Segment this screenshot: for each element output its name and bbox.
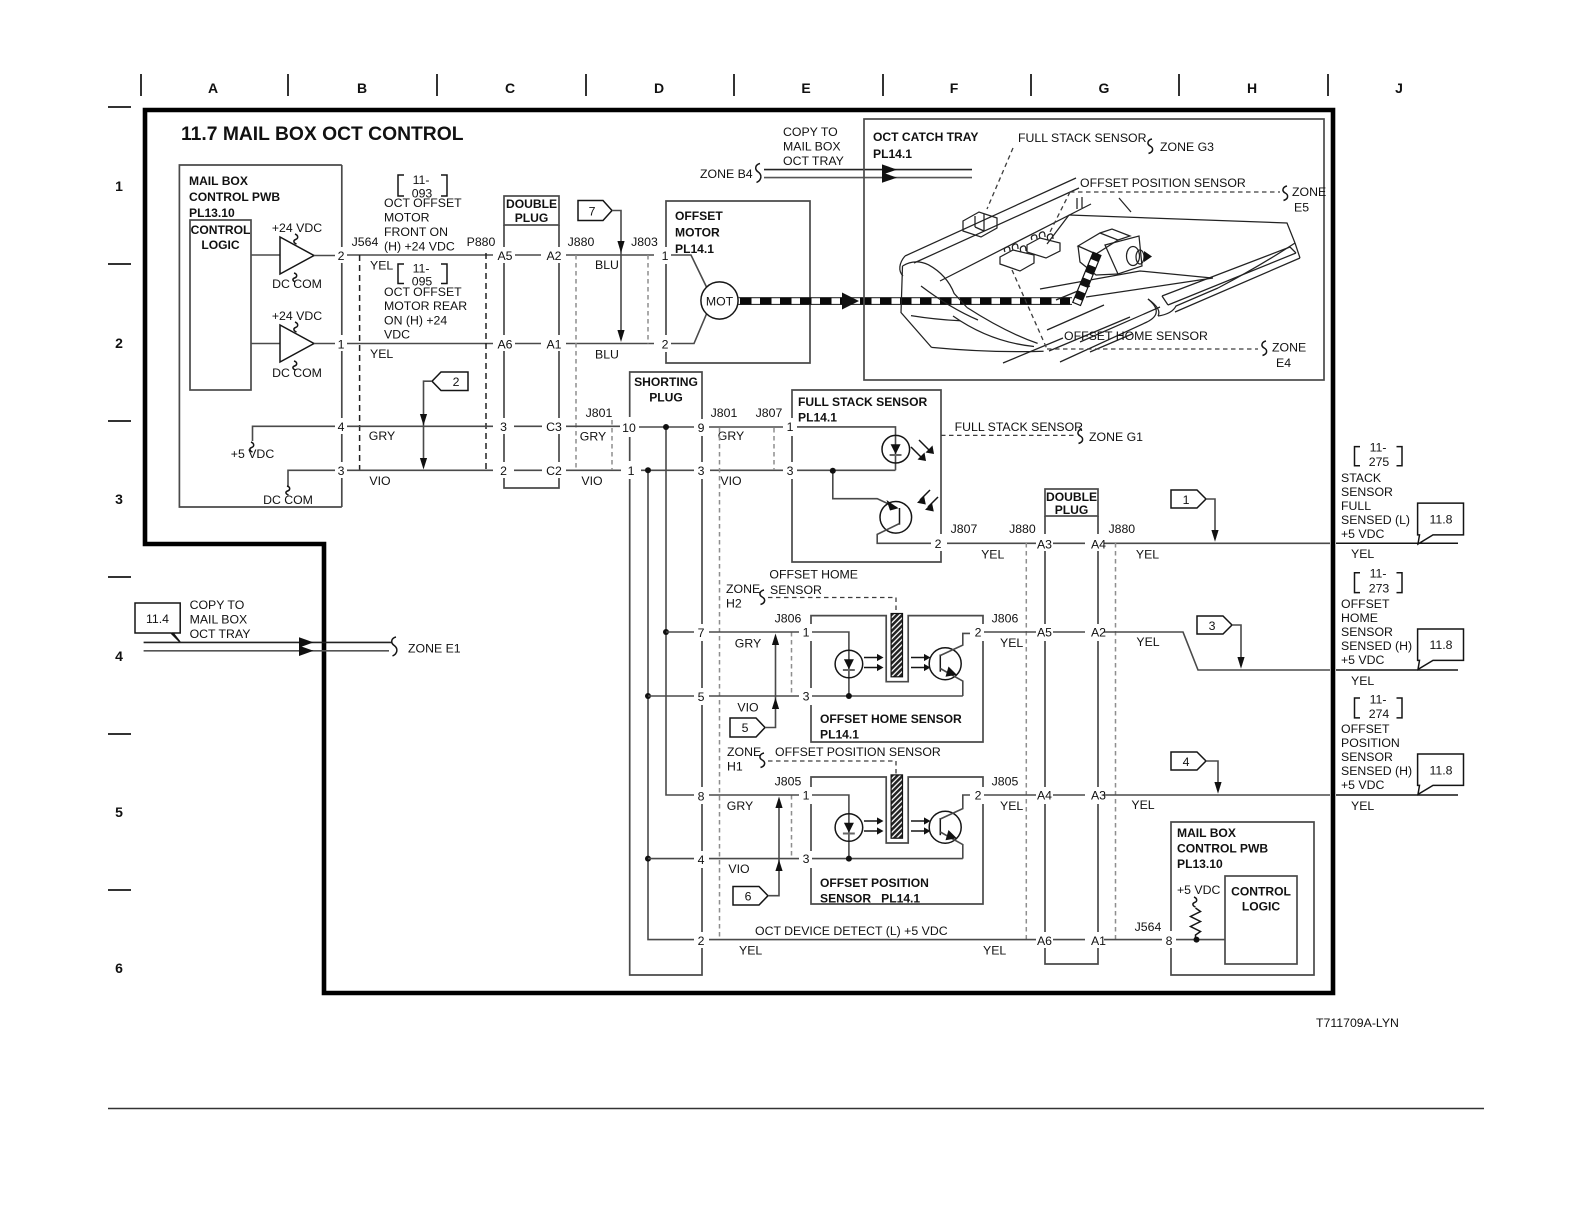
svg-text:J564: J564	[352, 235, 379, 249]
svg-text:1: 1	[787, 420, 794, 434]
svg-text:SENSOR: SENSOR	[770, 583, 822, 597]
svg-text:C: C	[505, 80, 515, 96]
svg-text:PLUG: PLUG	[515, 211, 549, 225]
svg-text:7: 7	[698, 626, 705, 640]
svg-text:8: 8	[698, 790, 705, 804]
+5 VDC pull-up resistor R1	[1177, 883, 1221, 938]
svg-text:MOT: MOT	[706, 295, 734, 309]
svg-text:3: 3	[115, 491, 123, 507]
junction dot J564-8 node	[1194, 937, 1200, 943]
svg-text:4: 4	[698, 853, 705, 867]
full stack sensor box PL14.1	[787, 390, 942, 562]
svg-text:A2: A2	[546, 249, 561, 263]
svg-text:COPY TO: COPY TO	[783, 125, 838, 139]
svg-text:YEL: YEL	[1351, 799, 1374, 813]
svg-text:SENSOR: SENSOR	[1341, 625, 1393, 639]
callout: OFFSET HOME SENSOR / zone E4	[1012, 270, 1306, 370]
svg-text:VIO: VIO	[720, 474, 741, 488]
svg-text:VDC: VDC	[384, 327, 410, 341]
svg-text:PL14.1: PL14.1	[675, 242, 714, 256]
svg-text:3: 3	[803, 690, 810, 704]
svg-text:PL14.1: PL14.1	[873, 147, 912, 161]
svg-text:+24 VDC: +24 VDC	[272, 309, 322, 323]
double plug (left) column	[504, 196, 559, 488]
svg-text:6: 6	[745, 890, 752, 904]
svg-text:BLU: BLU	[595, 348, 619, 362]
home sensor light arrows	[864, 654, 931, 671]
svg-text:OFFSET HOME: OFFSET HOME	[769, 567, 858, 581]
control logic block (left pwb)	[190, 220, 251, 390]
svg-text:DOUBLE: DOUBLE	[506, 197, 557, 211]
svg-text:YEL: YEL	[1136, 548, 1159, 562]
tray pictorial: striped actuator rod	[1073, 252, 1101, 305]
svg-text:J801: J801	[711, 406, 738, 420]
tray pictorial: full stack sensor part	[963, 212, 997, 237]
svg-text:ZONE G3: ZONE G3	[1160, 140, 1214, 154]
svg-text:DOUBLE: DOUBLE	[1046, 490, 1097, 504]
svg-text:J803: J803	[631, 235, 658, 249]
wire J564-2 to J803-1 (front motor, YEL/BLU)	[347, 255, 707, 287]
wire VIO row 4 to J805-3	[648, 859, 799, 876]
svg-text:YEL: YEL	[1351, 547, 1374, 561]
offset position sensor box PL14.1	[803, 777, 983, 906]
svg-text:ZONE E1: ZONE E1	[408, 642, 461, 656]
svg-text:VIO: VIO	[737, 701, 758, 715]
mechanical drive dashed link to tray	[738, 293, 1072, 310]
svg-text:2: 2	[975, 626, 982, 640]
position sensor phototransistor Q3	[929, 795, 970, 859]
svg-text:OCT OFFSET: OCT OFFSET	[384, 196, 462, 210]
svg-text:J: J	[1395, 80, 1403, 96]
svg-text:ZONE: ZONE	[727, 745, 761, 759]
svg-text:E4: E4	[1276, 356, 1291, 370]
svg-text:1: 1	[803, 626, 810, 640]
svg-text:MAIL BOX: MAIL BOX	[783, 140, 841, 154]
callout: FULL STACK SENSOR zone G1	[941, 420, 1143, 444]
svg-text:2: 2	[698, 934, 705, 948]
driver U2 +24VDC buffer (rear motor)	[251, 309, 335, 380]
position sensor interrupter flag	[891, 775, 902, 838]
connector labels J564 P880 J880 J803	[352, 235, 658, 249]
svg-text:CONTROL: CONTROL	[191, 223, 251, 237]
svg-text:OCT CATCH TRAY: OCT CATCH TRAY	[873, 130, 978, 144]
copy-to-mailbox paper path from zone B4	[700, 125, 972, 183]
mail box control pwb (right) box PL13.10	[1171, 822, 1314, 975]
svg-text:A: A	[208, 80, 218, 96]
svg-text:OFFSET POSITION: OFFSET POSITION	[820, 876, 929, 890]
svg-text:YEL: YEL	[1351, 674, 1374, 688]
svg-text:11-: 11-	[1370, 441, 1387, 455]
driver U1 +24VDC buffer (front motor)	[251, 221, 335, 291]
column header ticks	[141, 74, 1328, 96]
wire row J806-2 to A5/A2 (offset home sensed)	[984, 612, 1458, 689]
offset motor box PL14.1	[662, 201, 810, 363]
wire VIO row (pwb pin3 to J801-1)	[347, 470, 783, 488]
motor MOT symbol	[701, 282, 738, 319]
svg-text:GRY: GRY	[718, 429, 744, 443]
svg-text:2: 2	[500, 464, 507, 478]
svg-text:GRY: GRY	[727, 799, 753, 813]
svg-text:T711709A-LYN: T711709A-LYN	[1316, 1016, 1399, 1030]
svg-text:SENSED (H): SENSED (H)	[1341, 764, 1412, 778]
svg-text:FULL STACK SENSOR: FULL STACK SENSOR	[955, 420, 1084, 434]
svg-text:YEL: YEL	[370, 347, 393, 361]
tag 1 pointer (full stack row)	[1171, 490, 1219, 542]
tag 7 pointer to motor wires	[578, 201, 625, 343]
svg-text:PL13.10: PL13.10	[189, 206, 235, 220]
svg-text:GRY: GRY	[580, 430, 606, 444]
svg-text:J880: J880	[1108, 522, 1135, 536]
shorting plug internal jumper B (3-5-4-2)	[648, 470, 694, 939]
svg-text:1: 1	[1183, 493, 1190, 507]
svg-text:7: 7	[589, 205, 596, 219]
svg-text:4: 4	[338, 420, 345, 434]
svg-text:OFFSET: OFFSET	[1341, 722, 1390, 736]
tag 5 pointer (home sensor wires)	[730, 634, 779, 738]
svg-text:SENSED (H): SENSED (H)	[1341, 639, 1412, 653]
note 11-093 OCT OFFSET MOTOR FRONT ON	[384, 173, 462, 254]
svg-text:MOTOR: MOTOR	[675, 226, 720, 240]
svg-text:GRY: GRY	[369, 429, 395, 443]
svg-text:C3: C3	[546, 420, 562, 434]
svg-text:5: 5	[115, 804, 123, 820]
svg-text:+5 VDC: +5 VDC	[1341, 527, 1385, 541]
svg-text:J805: J805	[992, 775, 1019, 789]
svg-text:OFFSET HOME SENSOR: OFFSET HOME SENSOR	[820, 712, 962, 726]
home sensor interrupter flag	[891, 614, 902, 677]
svg-text:HOME: HOME	[1341, 611, 1378, 625]
svg-text:OFFSET: OFFSET	[675, 209, 723, 223]
svg-text:YEL: YEL	[983, 944, 1006, 958]
gray dashed connector line J806	[791, 632, 793, 696]
svg-text:H2: H2	[726, 597, 742, 611]
tray pictorial: right rails	[1148, 243, 1300, 316]
svg-text:3: 3	[787, 464, 794, 478]
svg-text:J564: J564	[1135, 920, 1162, 934]
svg-text:MAIL BOX: MAIL BOX	[189, 174, 248, 188]
svg-text:DC COM: DC COM	[272, 366, 322, 380]
svg-text:11.8: 11.8	[1429, 638, 1452, 652]
gray dashed connector lines J880 double plug right	[1025, 543, 1027, 939]
svg-text:PLUG: PLUG	[649, 391, 683, 405]
note 11-275 stack sensor full sensed	[1341, 441, 1410, 541]
svg-text:11.4: 11.4	[146, 612, 169, 626]
column letters	[208, 80, 1403, 96]
svg-text:ZONE G1: ZONE G1	[1089, 430, 1143, 444]
svg-text:A6: A6	[1037, 934, 1052, 948]
position sensor LED D3	[812, 795, 963, 859]
svg-text:(H) +24 VDC: (H) +24 VDC	[384, 240, 455, 254]
svg-text:+5 VDC: +5 VDC	[231, 447, 275, 461]
svg-text:GRY: GRY	[735, 637, 761, 651]
svg-text:A2: A2	[1091, 626, 1106, 640]
svg-text:J806: J806	[775, 612, 802, 626]
svg-text:2: 2	[935, 537, 942, 551]
svg-text:SENSOR: SENSOR	[1341, 750, 1393, 764]
svg-text:STACK: STACK	[1341, 471, 1382, 485]
note 11-274 offset position sensor sensed	[1341, 693, 1412, 793]
svg-text:DC COM: DC COM	[272, 277, 322, 291]
svg-text:3: 3	[803, 852, 810, 866]
svg-text:YEL: YEL	[739, 944, 762, 958]
svg-text:OCT OFFSET: OCT OFFSET	[384, 285, 462, 299]
callout: ZONE H2 offset home sensor	[726, 567, 896, 613]
junction dots shorting plug	[663, 424, 669, 430]
svg-text:FULL: FULL	[1341, 499, 1371, 513]
tray pictorial: top surface	[1040, 197, 1295, 297]
svg-text:8: 8	[1166, 934, 1173, 948]
svg-text:FULL STACK SENSOR: FULL STACK SENSOR	[1018, 131, 1147, 145]
full stack phototransistor Q1	[833, 470, 931, 543]
gray dashed connector line J801 (left)	[611, 420, 613, 470]
svg-text:MAIL BOX: MAIL BOX	[1177, 826, 1236, 840]
svg-text:+5 VDC: +5 VDC	[1341, 778, 1385, 792]
svg-text:FRONT ON: FRONT ON	[384, 225, 448, 239]
svg-text:J806: J806	[992, 612, 1019, 626]
svg-text:3: 3	[1209, 619, 1216, 633]
svg-text:YEL: YEL	[370, 259, 393, 273]
offset home sensor box PL14.1	[803, 616, 983, 742]
svg-text:2: 2	[453, 375, 460, 389]
svg-text:9: 9	[698, 421, 705, 435]
svg-text:1: 1	[628, 464, 635, 478]
wire GRY row (pwb pin4 to J801-10)	[347, 426, 783, 443]
black dashed connector line P880	[485, 253, 487, 470]
shorting plug box	[630, 372, 702, 975]
gray dashed harness line J801 long	[719, 428, 721, 939]
svg-text:CONTROL PWB: CONTROL PWB	[1177, 842, 1268, 856]
svg-text:OFFSET POSITION SENSOR: OFFSET POSITION SENSOR	[1080, 176, 1246, 190]
svg-text:PL14.1: PL14.1	[820, 728, 859, 742]
svg-text:A1: A1	[1091, 934, 1106, 948]
control logic block (right pwb)	[1225, 876, 1297, 964]
shorting plug internal jumper A (9-7-8)	[666, 427, 694, 795]
svg-text:OFFSET HOME SENSOR: OFFSET HOME SENSOR	[1064, 329, 1208, 343]
svg-text:1: 1	[115, 178, 123, 194]
svg-text:H1: H1	[727, 760, 743, 774]
svg-text:274: 274	[1369, 707, 1390, 721]
tray pictorial: offset home sensor part	[1000, 244, 1034, 271]
svg-text:LOGIC: LOGIC	[201, 238, 240, 252]
svg-text:COPY TO: COPY TO	[190, 598, 245, 612]
svg-text:J807: J807	[756, 406, 783, 420]
svg-text:J801: J801	[586, 406, 613, 420]
svg-text:ON (H) +24: ON (H) +24	[384, 313, 447, 327]
full stack received light arrows	[917, 490, 938, 512]
svg-text:+5 VDC: +5 VDC	[1341, 653, 1385, 667]
svg-text:A4: A4	[1091, 537, 1106, 551]
svg-text:A1: A1	[546, 338, 561, 352]
note 11-273 offset home sensor sensed	[1341, 567, 1412, 667]
svg-text:PL13.10: PL13.10	[1177, 857, 1223, 871]
svg-text:A4: A4	[1037, 789, 1052, 803]
wire row J805-2 to A4/A3 (offset position sensed)	[984, 775, 1458, 814]
wire row 2: OCT device detect	[709, 920, 1225, 958]
double plug (right) column	[1045, 489, 1098, 964]
+5 VDC source stub (pin 4)	[231, 426, 335, 461]
svg-text:11.8: 11.8	[1429, 513, 1452, 527]
svg-text:1: 1	[338, 338, 345, 352]
gray dashed connector line J803	[647, 255, 649, 344]
svg-text:A5: A5	[497, 249, 512, 263]
callout: ZONE H1 offset position sensor	[727, 745, 941, 776]
svg-text:PL14.1: PL14.1	[798, 411, 837, 425]
gray dashed connector line J880	[575, 255, 577, 470]
svg-text:2: 2	[338, 249, 345, 263]
svg-text:ZONE B4: ZONE B4	[700, 167, 753, 181]
callout: OFFSET POSITION SENSOR / zone E5	[1050, 176, 1326, 232]
svg-text:3: 3	[338, 464, 345, 478]
svg-text:+5 VDC: +5 VDC	[1177, 883, 1221, 897]
tag 4 pointer (offset position row)	[1171, 752, 1222, 794]
position sensor light arrows	[864, 817, 931, 834]
svg-text:YEL: YEL	[981, 548, 1004, 562]
svg-text:CONTROL PWB: CONTROL PWB	[189, 190, 280, 204]
tag 2 pointer to GRY/VIO wires	[420, 372, 468, 470]
svg-text:11-: 11-	[413, 173, 430, 187]
svg-text:D: D	[654, 80, 664, 96]
svg-text:OCT DEVICE DETECT (L) +5 VDC: OCT DEVICE DETECT (L) +5 VDC	[755, 924, 948, 938]
svg-text:FULL STACK SENSOR: FULL STACK SENSOR	[798, 395, 927, 409]
svg-text:275: 275	[1369, 455, 1390, 469]
tray pictorial: front-left foot and curves	[901, 262, 1044, 352]
svg-text:11-: 11-	[1370, 567, 1387, 581]
copy-to paper path from 11.4 (zone E1)	[135, 598, 461, 656]
svg-text:A3: A3	[1091, 789, 1106, 803]
black dashed connector line J564	[359, 255, 361, 470]
svg-text:B: B	[357, 80, 367, 96]
svg-text:A5: A5	[1037, 626, 1052, 640]
svg-text:YEL: YEL	[1131, 798, 1154, 812]
shorting plug pin numbers	[622, 421, 704, 948]
DC COM stub (pin 3)	[263, 470, 335, 507]
flag tag 11.8 (row 2)	[1418, 629, 1464, 669]
svg-text:OFFSET POSITION SENSOR: OFFSET POSITION SENSOR	[775, 745, 941, 759]
full stack LED emission arrows	[911, 440, 934, 461]
svg-text:VIO: VIO	[369, 474, 390, 488]
svg-text:A3: A3	[1037, 537, 1052, 551]
svg-text:VIO: VIO	[728, 862, 749, 876]
tray pictorial: under-tray edges	[1003, 286, 1160, 363]
note 11-095 OCT OFFSET MOTOR REAR ON	[384, 262, 467, 342]
svg-text:5: 5	[698, 690, 705, 704]
wire VIO row 5 to J806-3	[648, 696, 799, 715]
svg-text:MAIL BOX: MAIL BOX	[190, 613, 248, 627]
double plug left pin labels	[497, 249, 562, 478]
junction dot home sensor pin3	[846, 693, 852, 699]
svg-text:ZONE: ZONE	[1292, 185, 1326, 199]
wire GRY row 8 to J805-1	[709, 795, 799, 813]
full stack LED D1	[797, 427, 910, 470]
svg-text:4: 4	[115, 648, 123, 664]
svg-text:11.7 MAIL BOX OCT CONTROL: 11.7 MAIL BOX OCT CONTROL	[181, 124, 464, 145]
svg-text:E: E	[801, 80, 810, 96]
tag 3 pointer (offset home row)	[1197, 616, 1245, 669]
svg-text:OCT TRAY: OCT TRAY	[190, 627, 251, 641]
row numbers	[115, 178, 123, 976]
svg-text:C2: C2	[546, 464, 562, 478]
svg-text:OCT TRAY: OCT TRAY	[783, 154, 844, 168]
gray dashed connector line J807	[773, 428, 775, 470]
wire GRY row 7 to J806-1	[666, 632, 799, 651]
svg-text:3: 3	[698, 464, 705, 478]
svg-text:CONTROL: CONTROL	[1231, 885, 1291, 899]
svg-text:ZONE: ZONE	[726, 582, 760, 596]
OCT catch tray box PL14.1	[864, 119, 1324, 380]
svg-text:PLUG: PLUG	[1055, 503, 1089, 517]
svg-text:OFFSET: OFFSET	[1341, 597, 1390, 611]
svg-text:A6: A6	[497, 338, 512, 352]
svg-text:3: 3	[500, 420, 507, 434]
svg-text:F: F	[950, 80, 959, 96]
svg-text:2: 2	[975, 789, 982, 803]
svg-text:DC COM: DC COM	[263, 493, 313, 507]
bottom horizontal rule	[108, 1108, 1484, 1110]
svg-text:POSITION: POSITION	[1341, 736, 1400, 750]
svg-text:MOTOR REAR: MOTOR REAR	[384, 299, 467, 313]
border frame of schematic sheet	[145, 110, 1333, 993]
svg-text:SHORTING: SHORTING	[634, 375, 698, 389]
svg-text:YEL: YEL	[1136, 635, 1159, 649]
pin numbers on left pwb	[338, 249, 345, 478]
tray pictorial: rear wall	[900, 178, 1091, 281]
svg-text:10: 10	[622, 421, 636, 435]
svg-text:J807: J807	[951, 522, 978, 536]
svg-text:ZONE: ZONE	[1272, 341, 1306, 355]
svg-text:6: 6	[115, 960, 123, 976]
connector labels J801 J801 J807	[586, 406, 783, 420]
svg-text:SENSOR PL14.1: SENSOR PL14.1	[820, 892, 920, 906]
svg-text:4: 4	[1183, 755, 1190, 769]
svg-text:+24 VDC: +24 VDC	[272, 221, 322, 235]
svg-text:11.8: 11.8	[1429, 764, 1452, 778]
junction dot position sensor pin3	[846, 856, 852, 862]
flag tag 11.8 (row 3)	[1418, 754, 1464, 794]
svg-text:P880: P880	[467, 235, 496, 249]
svg-text:2: 2	[115, 335, 123, 351]
svg-text:BLU: BLU	[595, 258, 619, 272]
tray pictorial: offset motor block	[1078, 229, 1152, 275]
svg-text:5: 5	[742, 721, 749, 735]
svg-text:1: 1	[662, 249, 669, 263]
svg-text:2: 2	[662, 338, 669, 352]
wire J564-1 to J803-2 (rear motor, YEL/BLU)	[347, 314, 707, 362]
tray pictorial: offset position sensor part	[1027, 232, 1060, 258]
svg-text:LOGIC: LOGIC	[1242, 900, 1281, 914]
svg-text:273: 273	[1369, 582, 1390, 596]
home sensor LED D2	[812, 632, 963, 696]
svg-text:J805: J805	[775, 775, 802, 789]
svg-text:G: G	[1099, 80, 1110, 96]
svg-text:J880: J880	[1009, 522, 1036, 536]
svg-text:H: H	[1247, 80, 1257, 96]
home sensor phototransistor Q2	[929, 633, 970, 696]
tag 6 pointer (position sensor wires)	[733, 797, 783, 906]
wire row J807-2 to A3/A4 (full stack sensed)	[947, 522, 1458, 562]
svg-text:1: 1	[803, 789, 810, 803]
svg-text:SENSOR: SENSOR	[1341, 485, 1393, 499]
svg-text:J880: J880	[568, 235, 595, 249]
svg-text:SENSED (L): SENSED (L)	[1341, 513, 1410, 527]
mail box control pwb (left) box PL13.10	[179, 165, 341, 507]
svg-text:MOTOR: MOTOR	[384, 211, 430, 225]
gray dashed connector line J805	[791, 795, 793, 859]
junction dot full stack pin3	[830, 468, 836, 474]
svg-text:11-: 11-	[1370, 693, 1387, 707]
svg-text:YEL: YEL	[1000, 799, 1023, 813]
svg-text:YEL: YEL	[1000, 636, 1023, 650]
flag tag 11.8 (row 1)	[1418, 503, 1464, 544]
